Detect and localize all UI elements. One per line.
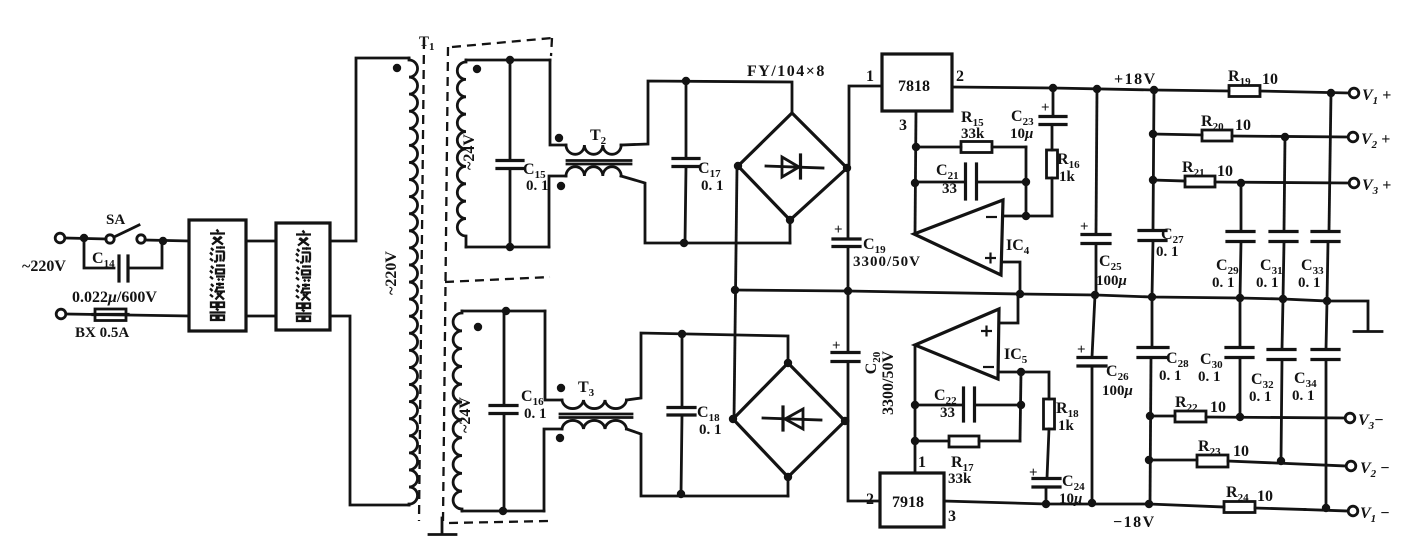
svg-text:10: 10 (1233, 443, 1249, 460)
capacitor C20 (electrolytic) (832, 338, 859, 362)
svg-text:10μ: 10μ (1010, 126, 1033, 142)
input terminal bottom (56, 309, 66, 319)
svg-text:7818: 7818 (898, 78, 930, 95)
svg-text:10: 10 (1210, 399, 1226, 416)
node C34 bottom (1322, 504, 1330, 512)
wire IC4 plus input to mid rail (1003, 262, 1020, 293)
node C16 bottom (499, 507, 507, 515)
wire bridge2 bottom stub (787, 477, 790, 496)
terminal V3- (1345, 413, 1355, 423)
wire input bottom (67, 314, 189, 316)
svg-text:7918: 7918 (892, 494, 924, 511)
wire 7818 pin3 riser to IC4 output (915, 111, 916, 234)
node C16 top (502, 307, 510, 315)
node +18V feed (1150, 86, 1158, 94)
node C31 top (1281, 133, 1289, 141)
wire IC5 plus input to mid rail (999, 296, 1018, 323)
node R17 left (911, 437, 919, 445)
node mid rail C31/C32 (1279, 295, 1287, 303)
IC4 plus marker (985, 253, 996, 264)
wire bridge1 bottom stub (789, 220, 792, 243)
IC5 minus marker (983, 366, 994, 368)
node R20 left (1149, 130, 1157, 138)
wire feedback drop IC5 (1020, 372, 1021, 441)
input terminal top (55, 233, 65, 243)
wire V1- line after R24 (1255, 508, 1305, 510)
regulator U2 7918 (880, 473, 944, 527)
svg-text:+: + (832, 338, 841, 354)
AC filter box 1 text (210, 230, 226, 321)
wire switch to node B (145, 240, 189, 241)
svg-text:+: + (834, 222, 843, 238)
node C22 left (911, 401, 919, 409)
capacitor C21 (915, 164, 1026, 199)
fuse BX (95, 309, 126, 321)
capacitor C22 (915, 388, 1021, 421)
svg-text:~220V: ~220V (383, 251, 400, 295)
node mid rail C25/C26 (1091, 291, 1099, 299)
node C23 top (1049, 84, 1057, 92)
svg-text:~220V: ~220V (22, 258, 66, 275)
T2 phasing dot bottom (557, 182, 565, 190)
svg-text:1k: 1k (1058, 418, 1075, 434)
svg-text:0. 1: 0. 1 (1212, 275, 1235, 291)
node C15 top (506, 56, 514, 64)
node C21 right (1022, 178, 1030, 186)
terminal V2+ (1348, 132, 1358, 142)
capacitor C34 (1312, 301, 1339, 508)
node C15 bottom (506, 243, 514, 251)
T1 secondary 2 winding (453, 311, 462, 511)
svg-text:+: + (1029, 465, 1038, 481)
node C29 top (1237, 179, 1245, 187)
svg-text:10μ: 10μ (1059, 491, 1082, 507)
node C18 bottom (677, 490, 685, 498)
resistor R15 (916, 142, 1026, 153)
svg-text:−18V: −18V (1113, 514, 1156, 531)
node mid rail left (731, 286, 739, 294)
node C17 top (682, 77, 690, 85)
wire bridge1 plus output riser to 7818 pin1 (847, 86, 882, 168)
wire R15 right drop (1025, 147, 1028, 216)
choke T3 bottom winding (562, 420, 627, 429)
svg-text:1k: 1k (1059, 169, 1076, 185)
shield dashed divider middle (445, 277, 550, 282)
node R22 C30 (1236, 413, 1244, 421)
T1 secondary 2 phasing dot (474, 323, 482, 331)
bridge2 vertex dots (784, 359, 792, 367)
choke T2 bottom winding (566, 167, 621, 176)
wire +18V rail (7818 pin2 to R19) (952, 87, 1229, 91)
node mid rail C33/C34 (1323, 297, 1331, 305)
ground symbol right (1354, 330, 1382, 333)
svg-text:0. 1: 0. 1 (1249, 389, 1272, 405)
svg-text:1: 1 (866, 68, 874, 85)
wire T2 right bottom to lower rail (621, 176, 790, 243)
svg-text:0. 1: 0. 1 (1156, 244, 1179, 260)
svg-text:+: + (1080, 219, 1089, 235)
svg-text:33: 33 (942, 181, 957, 197)
terminal V3+ (1349, 178, 1359, 188)
capacitor C32 (1268, 299, 1295, 461)
capacitor C25 (electrolytic) (1080, 89, 1110, 294)
wire bridge2 right vertex stub (845, 420, 848, 423)
svg-text:BX 0.5A: BX 0.5A (75, 325, 129, 341)
svg-text:0. 1: 0. 1 (1159, 368, 1182, 384)
wire T2 right top to rectifier rail (621, 81, 792, 145)
capacitor C33 (1312, 93, 1339, 301)
bridge1 vertex dots (734, 162, 742, 170)
capacitor C28 (1138, 297, 1168, 505)
wire +18V to R20 row drop (1153, 90, 1154, 230)
svg-text:0. 1: 0. 1 (526, 178, 549, 194)
svg-text:+: + (1041, 100, 1050, 116)
node R21 left (1149, 176, 1157, 184)
capacitor C14 (119, 256, 128, 281)
svg-text:10: 10 (1257, 488, 1273, 505)
bridge rectifier 2 (lower) (733, 363, 845, 477)
svg-text:33k: 33k (948, 471, 972, 487)
capacitor C19 (electrolytic) (833, 222, 860, 247)
wire input top (66, 238, 106, 239)
wire secondary2 bottom rail (462, 510, 544, 513)
T3 phasing dot bottom (556, 434, 564, 442)
svg-text:10: 10 (1217, 163, 1233, 180)
svg-text:+18V: +18V (1114, 71, 1157, 88)
wire T3 top rail (627, 333, 789, 400)
resistor R18 (vertical) (1044, 399, 1055, 429)
wire IC5 minus input line (999, 372, 1049, 399)
node C25 top (1093, 85, 1101, 93)
bridge rectifier 1 (upper) (738, 113, 847, 220)
node C17 bottom (680, 239, 688, 247)
capacitor C23 (electrolytic) (1040, 88, 1066, 125)
node C21 left (911, 179, 919, 187)
capacitor C29 (1227, 183, 1254, 298)
node C33 top (1327, 89, 1335, 97)
T1 secondary 1 winding (457, 60, 466, 247)
T1 secondary 1 phasing dot (473, 65, 481, 73)
node mid rail at C19/C20 (844, 287, 852, 295)
svg-text:FY/104×8: FY/104×8 (747, 63, 826, 80)
svg-text:100μ: 100μ (1102, 383, 1133, 399)
svg-text:10: 10 (1235, 117, 1251, 134)
wire V1+ line after R19 (1260, 91, 1348, 93)
resistor R23 (1149, 455, 1346, 467)
svg-text:0. 1: 0. 1 (1198, 369, 1221, 385)
capacitor C30 (1226, 298, 1253, 417)
wire T3 bottom rail (627, 429, 789, 496)
wire box1-box2 bottom (246, 315, 276, 318)
svg-text:2: 2 (956, 68, 964, 85)
svg-text:3: 3 (948, 508, 956, 525)
svg-text:2: 2 (866, 491, 874, 508)
node R23 left (1145, 456, 1153, 464)
wire box2 to T1 primary top (330, 58, 409, 241)
svg-text:1: 1 (918, 454, 926, 471)
svg-text:~24V: ~24V (457, 397, 474, 433)
node R23 C32 (1277, 457, 1285, 465)
capacitor C27 (1139, 231, 1166, 298)
svg-text:0. 1: 0. 1 (1292, 388, 1315, 404)
wire box1-box2 top (246, 240, 276, 243)
capacitor C26 (electrolytic) (1077, 295, 1106, 503)
T1 core dashed line right (443, 47, 448, 521)
svg-text:~24V: ~24V (461, 134, 478, 170)
terminal V1+ (1349, 88, 1359, 98)
ground at T1 shield (429, 518, 456, 535)
wire ground branch (1327, 301, 1368, 330)
svg-text:0. 1: 0. 1 (1298, 275, 1321, 291)
node C18 top (678, 330, 686, 338)
resistor R21 (1153, 176, 1348, 187)
wire mid rail (0V) (735, 290, 1327, 301)
op-amp IC4 (914, 200, 1003, 275)
regulator U1 7818 (882, 54, 952, 111)
node mid rail plus inputs (1016, 290, 1024, 298)
svg-text:3: 3 (899, 117, 907, 134)
wire T3 left bottom riser (544, 429, 562, 511)
svg-text:0.022μ/600V: 0.022μ/600V (72, 289, 157, 306)
svg-text:33k: 33k (961, 126, 985, 142)
wire C19-C20 zero volt stem (847, 247, 850, 351)
svg-text:+: + (1077, 342, 1086, 358)
wire C14 branch right (128, 244, 162, 268)
capacitor C15 (497, 60, 523, 247)
IC4 minus marker (986, 216, 997, 218)
capacitor C18 (668, 334, 695, 495)
resistor R16 (vertical) (1047, 125, 1058, 216)
node R15 left (912, 143, 920, 151)
terminal V1- (1348, 506, 1358, 516)
choke T2 top winding (566, 145, 621, 154)
T3 core lines (560, 413, 632, 416)
wire box2 to T1 primary bottom (330, 316, 409, 505)
wire T2 left top riser (550, 60, 566, 145)
T1 core dashed line left (419, 40, 424, 521)
svg-text:0. 1: 0. 1 (701, 178, 724, 194)
IC5 plus marker (981, 326, 992, 337)
capacitor C17 (673, 81, 699, 243)
wire C19 top stem (847, 168, 850, 238)
node C24 bottom (1042, 500, 1050, 508)
resistor R20 (1153, 130, 1347, 141)
AC filter box 1 (189, 220, 246, 331)
transformer T1 primary winding ~220V (409, 58, 418, 505)
wire IC5 output riser to 7918 pin1 (914, 345, 917, 473)
resistor R19 (1229, 86, 1260, 97)
op-amp IC5 (915, 309, 999, 379)
wire -18V rail (944, 501, 1224, 507)
T2 core lines (567, 159, 631, 162)
resistor R17 (915, 436, 1020, 447)
svg-text:SA: SA (106, 212, 125, 228)
node -18V feed (1145, 500, 1153, 508)
wire secondary2 top rail (462, 310, 545, 313)
resistor R22 (1150, 411, 1345, 422)
wire C20 bottom stem to 7918 pin2 (848, 362, 880, 501)
wire DC common vertical (bridge1 left to bridge2 left) (734, 167, 737, 419)
capacitor C31 (1270, 137, 1297, 299)
node minus input IC5 (1017, 368, 1025, 376)
wire T3 left top riser (545, 311, 562, 400)
T1 primary phasing dot (393, 64, 401, 72)
node R22 left (1146, 412, 1154, 420)
node mid rail C27/C28 (1148, 293, 1156, 301)
node C22 right (1017, 401, 1025, 409)
wire secondary1 top rail (466, 59, 550, 62)
svg-text:0. 1: 0. 1 (1256, 275, 1279, 291)
terminal V2- (1346, 461, 1356, 471)
switch SA (106, 225, 145, 243)
svg-text:10: 10 (1262, 71, 1278, 88)
shield dashed box right top stub (551, 38, 552, 56)
choke T3 top winding (562, 400, 627, 409)
svg-text:3300/50V: 3300/50V (853, 254, 921, 270)
wire C14 branch left (84, 238, 114, 268)
wire T2 left bottom riser (549, 176, 566, 247)
resistor R24 (1224, 502, 1255, 513)
shield dashed box bottom edge (449, 521, 549, 523)
svg-text:0. 1: 0. 1 (699, 422, 722, 438)
wire secondary1 bottom rail (466, 246, 549, 249)
svg-text:33: 33 (940, 405, 955, 421)
capacitor C16 (490, 311, 517, 511)
node A junction (80, 234, 88, 242)
T2 phasing dot top (555, 134, 563, 142)
node B junction (159, 237, 167, 245)
node C26 bottom (1088, 499, 1096, 507)
T3 phasing dot top (557, 384, 565, 392)
node minus input IC4 (1022, 212, 1030, 220)
svg-text:3300/50V: 3300/50V (880, 351, 897, 415)
svg-text:100μ: 100μ (1096, 273, 1127, 289)
node mid rail C29/C30 (1236, 294, 1244, 302)
AC filter box 2 text (296, 231, 312, 322)
svg-text:0. 1: 0. 1 (524, 406, 547, 422)
capacitor C24 (electrolytic) (1029, 429, 1060, 504)
shield dashed box top edge (452, 38, 552, 47)
wire IC4 minus input line (1003, 215, 1052, 218)
AC filter box 2 (276, 223, 330, 330)
